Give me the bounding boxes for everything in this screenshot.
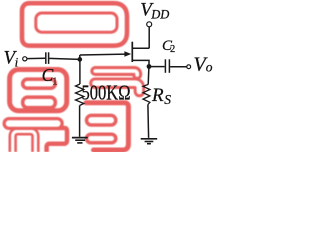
wire Vi to C1	[27, 57, 45, 59]
capacitor C1 plate right	[48, 52, 50, 64]
ground G2 bar 2	[145, 141, 154, 143]
ground G1 bar 3	[77, 142, 82, 144]
watermark left bar 1	[23, 79, 56, 88]
output terminal Vo circle	[187, 65, 191, 69]
wire gate node to transistor	[80, 53, 126, 56]
watermark left bar 2	[23, 97, 56, 108]
transistor drain lead	[132, 47, 149, 49]
capacitor C1 plate left	[45, 52, 47, 64]
ground G1 bar 1	[72, 137, 88, 139]
ground G2 bar 1	[141, 138, 158, 140]
watermark red glyph strokes	[9, 3, 139, 152]
svg-text:o: o	[206, 60, 213, 75]
watermark middle hook bar 1	[95, 71, 137, 75]
svg-text:i: i	[15, 54, 19, 69]
resistor RS zigzag	[143, 84, 150, 104]
node source junction dot	[147, 64, 152, 69]
watermark left wide bar	[9, 117, 57, 130]
resistor 500K zigzag	[76, 84, 84, 106]
ground G2 bar 3	[147, 143, 151, 145]
wire source node down to RS	[147, 67, 150, 85]
gate arrowhead	[124, 51, 131, 57]
watermark middle bracket	[86, 103, 128, 150]
capacitor C2 plate left	[164, 59, 166, 73]
watermark top inner ring	[36, 13, 117, 32]
VDD terminal circle	[147, 22, 152, 27]
watermark left box ring	[10, 70, 67, 111]
wire jog up at gate node	[79, 55, 81, 59]
input terminal Vi circle	[23, 57, 27, 61]
transistor Q1 channel bar	[131, 42, 133, 62]
watermark left hook glyph	[41, 128, 68, 152]
transistor source lead	[132, 60, 149, 66]
watermark left arch	[13, 131, 36, 152]
svg-text:2: 2	[170, 44, 175, 55]
capacitor C2 plate right	[168, 59, 170, 73]
node gate junction dot	[77, 57, 82, 62]
wire R1 to ground	[79, 106, 81, 137]
svg-text:R: R	[151, 85, 164, 106]
watermark middle bar 1	[87, 115, 116, 125]
svg-text:500KΩ: 500KΩ	[82, 81, 131, 105]
wire riser to VDD	[148, 27, 150, 49]
wire gate node down to R1	[79, 59, 81, 84]
wire source node to C2	[149, 66, 165, 68]
svg-text:DD: DD	[150, 8, 169, 22]
svg-text:S: S	[164, 92, 171, 107]
watermark middle hook bar 2	[95, 83, 139, 91]
watermark middle bar 2	[87, 134, 116, 143]
wire RS to ground	[147, 105, 150, 138]
wire C2 to Vo	[170, 66, 187, 68]
ground G1 bar 2	[75, 139, 85, 141]
wire C1 to gate node	[49, 58, 80, 59]
svg-text:1: 1	[52, 76, 57, 87]
watermark top outer ring	[22, 3, 127, 46]
